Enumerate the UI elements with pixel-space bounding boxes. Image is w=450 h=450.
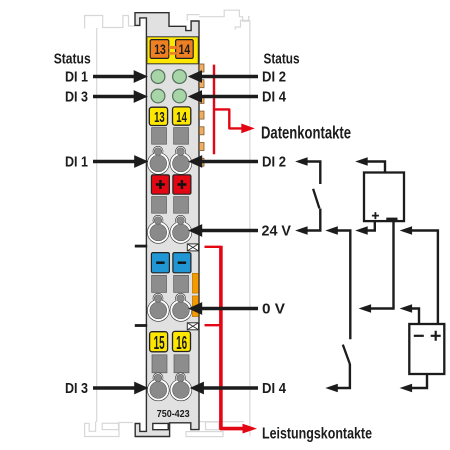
plus mark left	[156, 180, 165, 189]
red wire Leistungskontakte tick upper	[205, 246, 222, 248]
power jumper tick left lower	[135, 324, 147, 327]
svg-text:15: 15	[154, 332, 165, 353]
svg-text:14: 14	[179, 42, 191, 57]
actuation slot row C left	[152, 275, 167, 292]
arrow DI2 status right	[188, 70, 258, 83]
sensor top lead	[355, 157, 385, 172]
arrow DI1 status left	[93, 70, 148, 83]
neighbour module left edge line	[96, 28, 98, 422]
switch S2 bottom lead	[325, 364, 350, 392]
svg-text:13: 13	[154, 42, 166, 57]
yellow terminal block top	[147, 37, 198, 64]
svg-text:750-423: 750-423	[157, 409, 190, 420]
power jumper contact right upper	[187, 244, 198, 251]
svg-text:24 V: 24 V	[262, 223, 292, 240]
arrow DI4 clamp right	[190, 382, 258, 395]
clamp DI2	[170, 147, 191, 174]
svg-text:Status: Status	[264, 51, 300, 68]
red wire Datenkontakte branch	[214, 109, 242, 128]
red clamp square right	[173, 175, 191, 194]
actuation slot row B right	[174, 197, 189, 214]
svg-text:16: 16	[176, 332, 187, 353]
switch S1 bottom lead	[295, 209, 320, 235]
LED DI4	[173, 89, 187, 103]
clamp 24V left	[148, 216, 169, 243]
svg-text:DI 3: DI 3	[65, 89, 88, 106]
battery bottom lead to DI4	[400, 374, 427, 392]
red clamp square left	[151, 175, 169, 194]
arrow DI2 clamp right	[188, 155, 258, 168]
neighbour module right edge line	[249, 20, 251, 436]
arrow DI1 clamp left	[93, 155, 148, 168]
battery plus mark	[431, 331, 441, 341]
red wire Datenkontakte vertical	[213, 65, 215, 155]
actuation slot row A right	[174, 128, 189, 145]
LED DI3	[151, 89, 165, 103]
svg-text:14: 14	[176, 109, 187, 126]
red arrowhead Datenkontakte	[241, 124, 255, 134]
yellow label square 14	[173, 107, 191, 125]
orange nubs between caps	[169, 46, 176, 49]
yellow label square 15	[150, 332, 168, 352]
svg-text:DI 4: DI 4	[262, 380, 287, 397]
red wire Leistungskontakte tick lower	[205, 324, 222, 326]
clamp 0V right	[170, 294, 191, 321]
sensor minus mark	[386, 218, 397, 221]
arrow 24V clamp right	[188, 224, 258, 237]
yellow label square 13	[149, 107, 167, 125]
battery minus mark	[414, 335, 424, 337]
svg-text:DI 4: DI 4	[262, 89, 287, 106]
orange strip lower	[192, 296, 198, 317]
clamp DI4	[170, 373, 191, 400]
arrow DI3 status left	[93, 90, 148, 103]
svg-text:DI 1: DI 1	[65, 154, 88, 171]
svg-text:0 V: 0 V	[262, 301, 285, 318]
arrow 0V clamp right	[188, 302, 258, 315]
battery minus lead to 0V	[400, 304, 419, 324]
minus mark right	[178, 262, 186, 264]
battery plus lead to 24V	[400, 226, 438, 324]
red arrowhead Leistungskontakte	[243, 424, 258, 434]
arrow DI3 clamp left	[93, 382, 148, 395]
actuation slot row B left	[152, 197, 167, 214]
actuation slot row A left	[152, 128, 167, 145]
actuation slot row D left	[152, 355, 167, 373]
orange cap 13	[150, 40, 169, 59]
switch S2 blade	[343, 345, 350, 365]
power jumper contact right lower	[187, 323, 198, 330]
svg-text:Leistungskontakte: Leistungskontakte	[262, 426, 372, 443]
wire 24V to switch S2	[325, 226, 350, 339]
red wire Leistungskontakte main	[221, 246, 244, 429]
switch S1 top lead	[295, 157, 320, 184]
clamp DI1	[148, 147, 169, 174]
blue clamp square right	[173, 253, 191, 273]
clamp 24V right	[170, 216, 191, 243]
switch S1 blade	[313, 189, 319, 209]
actuation slot row D right	[174, 355, 189, 373]
svg-text:Datenkontakte: Datenkontakte	[261, 122, 351, 142]
battery box G1	[409, 324, 444, 374]
orange strip upper	[192, 273, 198, 293]
svg-text:13: 13	[154, 109, 165, 126]
plus mark right	[177, 180, 186, 189]
arrow DI4 status right	[188, 90, 258, 103]
clamp DI3	[148, 373, 169, 400]
LED DI2	[173, 70, 187, 84]
actuation slot row C right	[174, 275, 189, 292]
sensor 0V lead	[359, 221, 394, 313]
power jumper tick left upper	[135, 245, 147, 248]
DIN rail neighbour outline bottom-left	[85, 422, 133, 437]
sensor plus mark	[372, 212, 379, 219]
LED DI1	[151, 70, 165, 84]
DIN rail neighbour outline bottom-right	[186, 422, 244, 437]
sensor box B1	[364, 173, 404, 222]
yellow label square 16	[173, 331, 191, 351]
sensor plus lead to 24V	[355, 221, 375, 235]
clamp 0V left	[148, 294, 169, 321]
svg-text:DI 3: DI 3	[65, 380, 88, 397]
svg-text:DI 2: DI 2	[262, 69, 286, 86]
data contacts on right edge	[199, 64, 204, 166]
module 750-423 body silhouette	[135, 13, 199, 437]
svg-text:Status: Status	[54, 51, 91, 68]
DIN rail neighbour outline top-left	[85, 16, 135, 29]
blue clamp square left	[151, 253, 169, 273]
svg-text:DI 2: DI 2	[262, 154, 286, 171]
DIN rail neighbour outline top-right	[187, 10, 250, 29]
minus mark left	[156, 262, 164, 264]
orange cap 14	[176, 40, 194, 59]
svg-text:DI 1: DI 1	[65, 69, 88, 86]
